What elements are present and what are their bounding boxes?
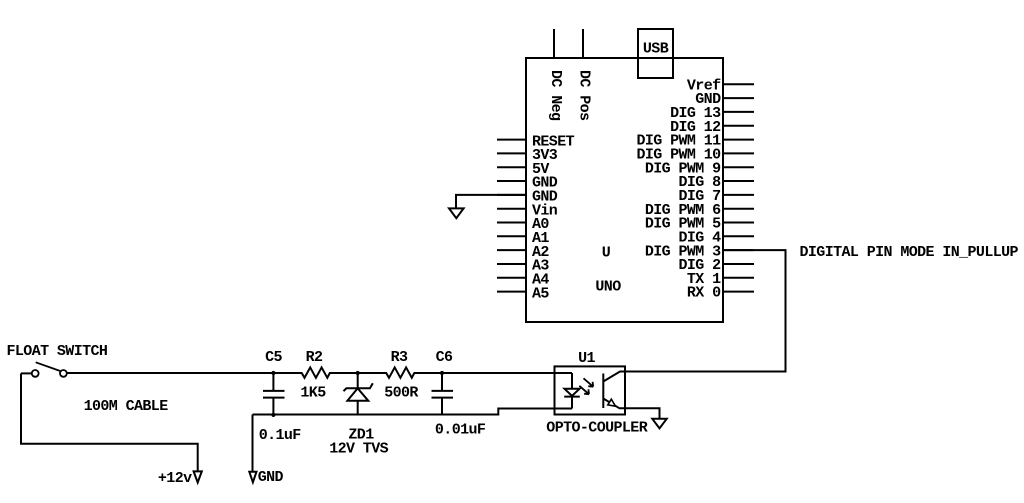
svg-text:UNO: UNO	[595, 279, 621, 296]
svg-text:500R: 500R	[384, 385, 418, 402]
svg-text:U1: U1	[578, 350, 595, 367]
svg-text:RX 0: RX 0	[687, 285, 721, 302]
svg-text:C6: C6	[436, 349, 453, 366]
svg-text:USB: USB	[643, 41, 669, 58]
svg-text:OPTO-COUPLER: OPTO-COUPLER	[546, 420, 647, 437]
svg-text:0.1uF: 0.1uF	[259, 427, 302, 444]
svg-text:12V TVS: 12V TVS	[329, 440, 388, 457]
svg-text:DIGITAL PIN MODE IN_PULLUP: DIGITAL PIN MODE IN_PULLUP	[800, 244, 1019, 261]
svg-text:FLOAT SWITCH: FLOAT SWITCH	[7, 343, 108, 360]
svg-text:+12v: +12v	[158, 470, 192, 487]
svg-text:U: U	[602, 244, 611, 261]
svg-text:A5: A5	[532, 285, 549, 302]
svg-text:100M CABLE: 100M CABLE	[84, 398, 169, 415]
svg-text:R3: R3	[391, 349, 408, 366]
svg-text:DC Pos: DC Pos	[576, 70, 593, 121]
svg-text:0.01uF: 0.01uF	[435, 422, 486, 439]
svg-text:1K5: 1K5	[300, 385, 326, 402]
svg-text:C5: C5	[265, 349, 282, 366]
svg-text:GND: GND	[258, 469, 284, 486]
svg-text:R2: R2	[306, 349, 323, 366]
svg-text:DC Neg: DC Neg	[547, 70, 564, 121]
